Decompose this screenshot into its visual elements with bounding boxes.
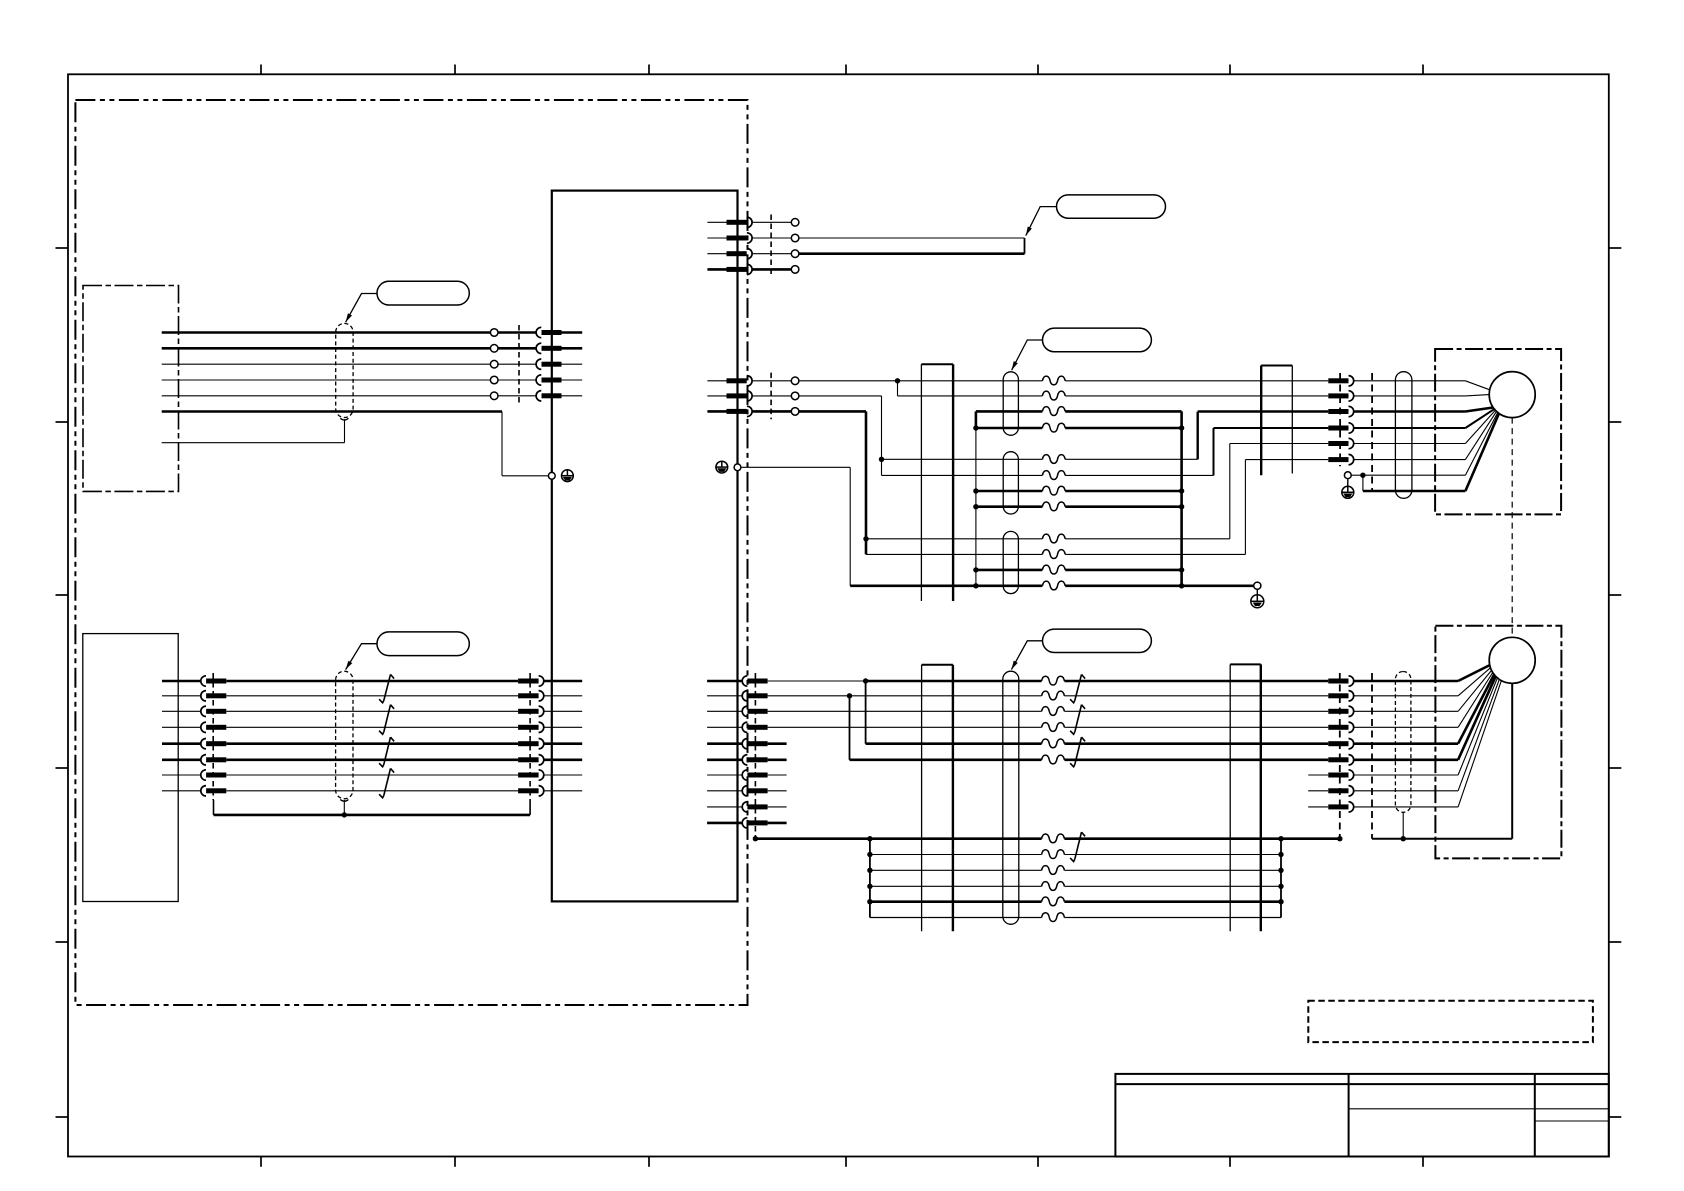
pin stub CN8-7 bbox=[1308, 774, 1328, 776]
ground bus to motor2 bbox=[1372, 683, 1512, 838]
pin stub CN8-8 bbox=[1308, 790, 1328, 792]
connector pin CN4-5 bbox=[1328, 438, 1353, 448]
pin stub CN7-9r bbox=[768, 806, 787, 808]
wire M2-5 bbox=[1230, 443, 1329, 445]
connector pin CN3-3 bbox=[727, 406, 753, 416]
wire M2-3 bbox=[1198, 410, 1329, 413]
pin stub CN1-3 bbox=[562, 363, 583, 365]
connector pin CN2-3 bbox=[727, 249, 753, 259]
junction CN7 drain bbox=[753, 836, 758, 841]
pin stub CN7-7r bbox=[768, 774, 787, 776]
motor 2 box (dash-dot) bbox=[1435, 626, 1561, 859]
pin stub CN6-2 bbox=[544, 695, 582, 697]
crimp splice bottom y=917.5 bbox=[1042, 913, 1065, 922]
twisted pair mark at 681.0 bbox=[379, 674, 394, 702]
ground bus wire bbox=[850, 584, 1253, 587]
junction B2 bbox=[847, 693, 852, 698]
terminal circle G2 bbox=[1254, 582, 1261, 589]
pin stub CN7-3 bbox=[707, 710, 742, 712]
connector pin CN5-7 bbox=[201, 770, 227, 780]
power wire P1 bbox=[976, 410, 1182, 413]
pin stub CN7-7 bbox=[707, 774, 742, 776]
branch B2 bbox=[849, 696, 851, 760]
shield tail E6 bbox=[1402, 812, 1404, 838]
cable group line CN4a (dashed) bbox=[1339, 373, 1341, 466]
junction M1-3 bbox=[879, 457, 884, 462]
connector pin CN1-1 bbox=[536, 327, 561, 337]
cable wire PB5 bbox=[226, 742, 518, 745]
power wire P5 bbox=[976, 569, 1182, 572]
cable shield E2 bbox=[1003, 452, 1018, 514]
cable duct D2 bbox=[1261, 366, 1292, 476]
signal wire M1-6 bbox=[866, 553, 1245, 555]
cable shield E3 bbox=[1003, 531, 1018, 593]
motor2 lead 5 bbox=[1458, 675, 1494, 744]
power wire P3 bbox=[976, 490, 1182, 493]
wire CN8-8 to motor bbox=[1354, 790, 1458, 792]
cable group line CN5 (dashed) bbox=[212, 673, 214, 800]
balloon label 5 bbox=[377, 632, 469, 656]
crimp splice bottom y=711.3 bbox=[1042, 707, 1065, 716]
cable shield 1 (dashed shield oval) bbox=[336, 323, 353, 417]
jog J1 bbox=[1196, 412, 1198, 460]
motor2 lead 1 bbox=[1458, 665, 1490, 681]
connector pin CN6-1 bbox=[518, 676, 544, 686]
wire B4 bbox=[768, 726, 1329, 728]
connector pin CN7-4 bbox=[742, 722, 767, 732]
motor1 lead 4 bbox=[1465, 409, 1494, 428]
power wire P4 bbox=[976, 505, 1182, 508]
connector pin CN5-1 bbox=[201, 676, 227, 686]
cable wire PB2 bbox=[226, 695, 518, 697]
connector pin CN7-1 bbox=[742, 676, 767, 686]
cable wire PB1 bbox=[226, 680, 518, 683]
junctions bus B bbox=[1179, 425, 1184, 588]
twisted pair mark bottom 838.7 bbox=[1070, 832, 1085, 861]
connector pin CN1-2 bbox=[536, 343, 561, 353]
cable group line CN1 (dashed) bbox=[518, 325, 520, 404]
connector pin CN6-8 bbox=[518, 786, 544, 796]
terminal circle op5 bbox=[490, 392, 498, 400]
motor1 lead 3 bbox=[1465, 408, 1493, 412]
crimp splice bottom y=854.5 bbox=[1042, 850, 1065, 859]
ground wire M1-Ga bbox=[1351, 474, 1363, 476]
ground wire M1-Gb bbox=[1363, 474, 1466, 476]
drain link CN6 bbox=[529, 800, 531, 815]
ladder wire S3 bbox=[870, 885, 1281, 887]
signal wire M1-4 bbox=[882, 474, 1214, 476]
signal wire M1-3 bbox=[882, 458, 1198, 460]
crimp splice at y=585.8 bbox=[1042, 581, 1065, 590]
connector pin CN8-3 bbox=[1328, 706, 1353, 716]
connector pin CN8-4 bbox=[1328, 722, 1353, 732]
shield tail 2 bbox=[340, 800, 348, 815]
terminal circle op2 bbox=[490, 345, 498, 353]
connector pin CN7-10 bbox=[742, 818, 767, 828]
pin stub CN7-5r bbox=[768, 742, 787, 745]
crimp splice at y=538.8 bbox=[1042, 534, 1065, 543]
pin stub CN7-5 bbox=[707, 742, 742, 745]
balloon label 3 bbox=[1043, 328, 1152, 352]
connector pin CN4-3 bbox=[1328, 406, 1353, 416]
connector pin CN1-3 bbox=[536, 359, 561, 369]
leader line 2 bbox=[1026, 207, 1057, 236]
junction drain 2 bbox=[342, 812, 347, 817]
ladder wire S5 bbox=[870, 917, 1281, 919]
connector pin CN8-8 bbox=[1328, 786, 1353, 796]
crimp splice bottom y=727.3 bbox=[1042, 723, 1065, 732]
pin stub CN6-7 bbox=[544, 774, 582, 776]
signal wire M1-5 bbox=[866, 538, 1230, 540]
crimp splice at y=554.4 bbox=[1042, 550, 1065, 559]
cable duct D4 bbox=[1230, 664, 1261, 931]
wire op4 to pin bbox=[498, 379, 536, 381]
wire CN8-7 to motor bbox=[1354, 774, 1458, 776]
ground wire G1 bbox=[741, 467, 850, 586]
pin stub CN7-6 bbox=[707, 758, 742, 761]
connector pin CN7-3 bbox=[742, 706, 767, 716]
wire pendant 5 bbox=[162, 742, 201, 745]
terminal circle CN3-3 bbox=[791, 408, 799, 416]
terminal circle CN2-3 bbox=[791, 250, 799, 258]
cable group line CN3 (dashed) bbox=[770, 373, 772, 420]
pin stub CN6-5 bbox=[544, 742, 582, 745]
branch B1 bbox=[865, 681, 867, 744]
connector pin CN8-6 bbox=[1328, 755, 1353, 765]
wire CN4-4 to motor bbox=[1354, 427, 1466, 429]
connector pin CN5-5 bbox=[201, 739, 227, 749]
ground symbol M1-G bbox=[1342, 486, 1354, 498]
wire CN8-4 to motor bbox=[1354, 726, 1458, 728]
wire CN8-5 to motor bbox=[1354, 742, 1458, 745]
operator-panel box (dash-dot) bbox=[83, 286, 179, 492]
border tick marks left bbox=[56, 248, 69, 1117]
crimp splice bottom y=838.7 bbox=[1042, 834, 1065, 843]
wire op-panel 3 bbox=[162, 363, 491, 365]
pin stub CN3-3 bbox=[707, 410, 726, 413]
junction bus3 a bbox=[867, 836, 872, 841]
pin stub CN2-4 bbox=[707, 268, 726, 271]
notes box (dashed) bbox=[1308, 1001, 1593, 1042]
cable shield E5 bbox=[1003, 671, 1019, 924]
shield drain wire 1 bbox=[162, 418, 349, 442]
power bus vertical B bbox=[1180, 411, 1183, 585]
cable wire PB4 bbox=[226, 726, 518, 728]
cable wire PB8 bbox=[226, 790, 518, 792]
wire op5 to pin bbox=[498, 395, 536, 397]
wire B1a bbox=[768, 680, 866, 682]
motor1 lead 8 bbox=[1465, 413, 1499, 491]
connector pin CN7-5 bbox=[742, 739, 767, 749]
balloon label 4 bbox=[1043, 629, 1152, 652]
motor1 lead 6 bbox=[1465, 411, 1496, 459]
connector pin CN7-7 bbox=[742, 770, 767, 780]
wire CN4-6 to motor bbox=[1354, 459, 1466, 461]
border tick marks top bbox=[261, 65, 1423, 75]
connector pin CN7-8 bbox=[742, 786, 767, 796]
connector pin CN8-5 bbox=[1328, 739, 1353, 749]
wire to peripheral B bbox=[798, 252, 1024, 255]
connector pin CN6-3 bbox=[518, 706, 544, 716]
wire CN2-4 bbox=[752, 268, 791, 271]
connector pin CN5-4 bbox=[201, 722, 227, 732]
connector pin CN1-5 bbox=[536, 391, 561, 401]
leader line 3 bbox=[1012, 340, 1043, 370]
title block right row line 2 bbox=[1535, 1120, 1609, 1122]
motor 2 circle bbox=[1489, 637, 1535, 683]
wire op-panel 2 bbox=[162, 347, 491, 350]
connector pin CN3-2 bbox=[727, 391, 753, 401]
connector pin CN8-2 bbox=[1328, 691, 1353, 701]
leader line 5 bbox=[346, 644, 377, 670]
motor shaft link (dashed) bbox=[1511, 418, 1513, 638]
ground stem G2 bbox=[1256, 589, 1258, 595]
pin stub CN1-5 bbox=[562, 395, 583, 397]
wire B6 bbox=[850, 758, 1329, 761]
crimp splice at y=459.3 bbox=[1042, 455, 1065, 464]
ground symbol unit-left bbox=[562, 470, 574, 482]
pin stub CN1-1 bbox=[562, 331, 583, 334]
signal wire M1-2 bbox=[898, 395, 1329, 397]
cable wire PB6 bbox=[226, 758, 518, 761]
wire pendant 8 bbox=[162, 790, 201, 792]
ladder wire S2 bbox=[870, 869, 1281, 871]
jog wire M1-1a bbox=[897, 381, 899, 396]
crimp splice at y=569.9 bbox=[1042, 565, 1065, 574]
twisted pair mark at 743.7 bbox=[379, 737, 394, 767]
pin stub CN7-9 bbox=[707, 806, 742, 808]
terminal circle CN2-1 bbox=[791, 219, 799, 227]
connector pin CN7-6 bbox=[742, 755, 767, 765]
junctions L1 bbox=[867, 852, 872, 905]
wire B2b bbox=[850, 695, 1329, 697]
crimp splice at y=395.9 bbox=[1042, 391, 1065, 400]
pin stub CN7-8r bbox=[768, 790, 787, 792]
wire op1 to pin bbox=[498, 331, 536, 334]
jog J4 bbox=[1244, 460, 1246, 555]
crimp splice bottom y=759.8 bbox=[1042, 755, 1065, 764]
cable group line CN4b (dashed) bbox=[1371, 373, 1373, 491]
wire CN2-3 bbox=[752, 253, 791, 255]
twisted pair mark at 775.0 bbox=[379, 768, 394, 797]
title block middle row line bbox=[1349, 1108, 1535, 1110]
connector pin CN5-6 bbox=[201, 755, 227, 765]
balloon label 2 bbox=[1057, 195, 1166, 218]
motor2 lead 6 bbox=[1458, 676, 1496, 760]
connector pin CN8-7 bbox=[1328, 770, 1353, 780]
pin stub CN7-8 bbox=[707, 790, 742, 792]
pin stub CN7-1 bbox=[707, 680, 742, 683]
connector pin CN5-3 bbox=[201, 706, 227, 716]
wire CN3-3 branch bbox=[798, 411, 866, 554]
pin stub CN6-6 bbox=[544, 758, 582, 761]
crimp splice at y=428.0 bbox=[1042, 423, 1065, 432]
junction B1 bbox=[863, 678, 868, 683]
terminal circle op1 bbox=[490, 329, 498, 337]
peripheral cable end bbox=[1024, 238, 1026, 254]
motor2 lead 7 bbox=[1458, 678, 1497, 775]
title block outline bbox=[1115, 1074, 1608, 1157]
pin stub CN1-2 bbox=[562, 347, 583, 350]
wire op2 to pin bbox=[498, 347, 536, 350]
pin stub CN3-2 bbox=[707, 395, 726, 397]
connector pin CN7-9 bbox=[742, 802, 767, 812]
terminal circle CN2-2 bbox=[791, 234, 799, 242]
pin stub CN2-1 bbox=[707, 221, 726, 223]
cable shield 2 (dashed shield oval) bbox=[336, 671, 353, 799]
connector pin CN6-5 bbox=[518, 739, 544, 749]
crimp splice bottom y=886.3 bbox=[1042, 882, 1065, 891]
wire op-panel 4 bbox=[162, 379, 491, 381]
motor1 lead 1 bbox=[1465, 381, 1489, 390]
ladder vertical L2 bbox=[1280, 839, 1282, 918]
cable group line CN8b (dashed) bbox=[1371, 673, 1373, 839]
title block right row line 1 bbox=[1535, 1108, 1609, 1110]
ground symbol unit-right bbox=[716, 461, 728, 473]
twisted pair mark bottom 743.7 bbox=[1070, 737, 1085, 767]
ladder wire S4 bbox=[870, 900, 1281, 903]
ground stem M1-G bbox=[1347, 479, 1349, 487]
wire CN4-5 to motor bbox=[1354, 443, 1466, 445]
jog J2 bbox=[1213, 428, 1215, 475]
title block header line bbox=[1115, 1083, 1608, 1085]
motor2 lead 3 bbox=[1458, 670, 1491, 711]
junction bus3 c bbox=[1337, 836, 1342, 841]
motor1 lead 2 bbox=[1465, 395, 1489, 396]
connector pin CN7-2 bbox=[742, 691, 767, 701]
motor 1 circle bbox=[1489, 372, 1535, 418]
crimp splice bottom y=870.3 bbox=[1042, 866, 1065, 875]
junction M1-G bbox=[1360, 473, 1365, 478]
cable group line CN2 (dashed) bbox=[770, 215, 772, 278]
wire B2a bbox=[768, 695, 850, 697]
connector pin CN2-4 bbox=[727, 264, 753, 274]
pendant box (solid) bbox=[83, 634, 178, 902]
title block divider 2 bbox=[1534, 1074, 1536, 1157]
crimp splice at y=475.4 bbox=[1042, 471, 1065, 480]
terminal circle op4 bbox=[490, 376, 498, 384]
crimp splice at y=506.7 bbox=[1042, 502, 1065, 511]
crimp splice at y=491.0 bbox=[1042, 486, 1065, 495]
wire pendant 4 bbox=[162, 726, 201, 728]
ladder vertical L1 bbox=[869, 839, 871, 918]
junctions bus A bbox=[973, 425, 978, 588]
junctions L2 bbox=[1278, 852, 1283, 905]
connector pin CN4-2 bbox=[1328, 391, 1353, 401]
wire M2-4 bbox=[1214, 427, 1329, 429]
cable wire PB3 bbox=[226, 710, 518, 712]
wire op3 to pin bbox=[498, 363, 536, 365]
wire CN4-1 to motor bbox=[1354, 380, 1466, 382]
signal wire M1-1 bbox=[798, 380, 1328, 382]
wire CN3-2 branch bbox=[798, 396, 881, 476]
shield drain bus 3 bbox=[755, 837, 1339, 840]
pin stub CN8-9 bbox=[1308, 806, 1328, 808]
connector pin CN4-4 bbox=[1328, 423, 1353, 433]
twisted pair mark bottom 711.3 bbox=[1070, 705, 1085, 735]
cable group line CN6 (dashed) bbox=[529, 673, 531, 800]
leader line 4 bbox=[1011, 641, 1042, 670]
pin stub CN6-3 bbox=[544, 710, 582, 712]
motor2 lead 4 bbox=[1458, 673, 1493, 728]
power wire P2 bbox=[976, 427, 1182, 430]
twisted pair mark at 711.3 bbox=[379, 705, 394, 735]
connector pin CN6-7 bbox=[518, 770, 544, 780]
title block divider 1 bbox=[1348, 1074, 1350, 1157]
connector pin CN8-1 bbox=[1328, 676, 1353, 686]
terminal circle FG1 bbox=[548, 472, 555, 479]
wire pendant 1 bbox=[162, 680, 201, 683]
pin stub CN2-3 bbox=[707, 253, 726, 255]
wire B3 bbox=[768, 710, 1329, 712]
pin stub CN6-8 bbox=[544, 790, 582, 792]
terminal circle CN2-4 bbox=[791, 266, 799, 274]
pin stub CN7-6r bbox=[768, 758, 787, 761]
junction M1-1 bbox=[895, 378, 900, 383]
cable shield E6 (dashed) bbox=[1395, 672, 1411, 813]
wire CN2-2 bbox=[752, 237, 791, 239]
ladder wire S1 bbox=[870, 854, 1281, 856]
motor2 lead 2 bbox=[1458, 668, 1490, 696]
wire CN3-2 bbox=[752, 395, 791, 397]
pin stub CN1-4 bbox=[562, 379, 583, 381]
wire to peripheral A bbox=[798, 237, 1024, 239]
crimp splice at y=411.4 bbox=[1042, 407, 1065, 416]
pin stub CN2-2 bbox=[707, 237, 726, 239]
twisted pair mark bottom 681.0 bbox=[1070, 674, 1085, 702]
connector pin CN8-9 bbox=[1328, 802, 1353, 812]
cable shield E1 bbox=[1003, 372, 1018, 436]
wire pendant 2 bbox=[162, 695, 201, 697]
junction M1-5 bbox=[863, 536, 868, 541]
terminal circle op3 bbox=[490, 360, 498, 368]
wire CN8-3 to motor bbox=[1354, 710, 1458, 712]
connector pin CN6-4 bbox=[518, 722, 544, 732]
connector pin CN2-2 bbox=[727, 233, 753, 243]
control-cabinet enclosure boundary (phantom line) bbox=[75, 100, 747, 1005]
crimp splice bottom y=681.0 bbox=[1042, 676, 1065, 685]
cable group line CN7 (dashed) bbox=[754, 673, 756, 839]
jog J3 bbox=[1229, 444, 1231, 539]
connector pin CN6-6 bbox=[518, 755, 544, 765]
ground jog M1-G bbox=[1362, 475, 1364, 491]
wire op-panel 5 bbox=[162, 395, 491, 397]
wire pendant 7 bbox=[162, 774, 201, 776]
connector pin CN5-2 bbox=[201, 691, 227, 701]
balloon label 1 bbox=[377, 281, 469, 305]
motor2 lead 8 bbox=[1458, 679, 1499, 790]
control unit U1 bbox=[552, 191, 738, 902]
pin stub CN6-4 bbox=[544, 726, 582, 728]
wire B1b bbox=[866, 680, 1329, 683]
wire CN3-1 bbox=[752, 380, 791, 382]
cable shield E4 bbox=[1395, 372, 1412, 499]
pin stub CN6-1 bbox=[544, 680, 582, 683]
pin stub CN7-2 bbox=[707, 695, 742, 697]
wire CN3-3 bbox=[752, 410, 791, 413]
motor1 lead 7 bbox=[1465, 413, 1497, 476]
junction E6 bbox=[1401, 836, 1406, 841]
motor1 lead 5 bbox=[1465, 410, 1495, 443]
junction bus3 b bbox=[1278, 836, 1283, 841]
pin stub CN7-10r bbox=[768, 822, 787, 825]
crimp splice at y=380.8 bbox=[1042, 376, 1065, 385]
wire CN8-1 to motor bbox=[1354, 680, 1458, 683]
wire B5 bbox=[866, 742, 1329, 745]
wire M2-6 bbox=[1245, 459, 1328, 461]
wire CN2-1 bbox=[752, 221, 791, 223]
cable wire PB7 bbox=[226, 774, 518, 776]
